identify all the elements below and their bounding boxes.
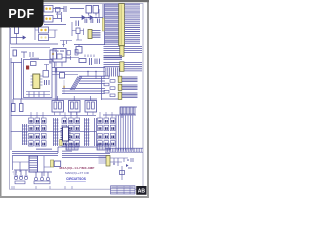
wire to bus	[89, 4, 103, 18]
relay K2 box	[93, 6, 99, 14]
psu small box	[31, 62, 37, 66]
drawing frame	[10, 4, 144, 190]
left rail wires	[11, 58, 22, 150]
wire y44.5 right	[74, 45, 105, 47]
capacitor C5 ticks	[64, 6, 66, 12]
driver cluster C2	[98, 134, 103, 139]
psu enclosure box	[24, 60, 53, 98]
transistor group Q1	[14, 170, 28, 176]
driver cluster A	[29, 118, 34, 123]
junction dots top-mid	[88, 17, 89, 18]
vertical pair x55	[55, 68, 57, 100]
vertical bus right	[116, 116, 133, 151]
driver cluster B	[62, 118, 67, 123]
wire y57.5 mid	[62, 57, 79, 59]
arrow wire	[11, 36, 26, 39]
U6 left text	[49, 61, 53, 64]
wires top-left cluster	[44, 9, 66, 25]
dense block left	[104, 56, 123, 59]
bottom-right wires	[110, 158, 128, 180]
connector J6	[118, 92, 122, 99]
connector J2	[120, 46, 124, 57]
fan yellow mark	[63, 86, 65, 89]
bus right of connector J1	[125, 4, 141, 43]
bus left lighter overlay	[105, 5, 119, 41]
opto U3 box	[39, 27, 49, 33]
coil symbols left	[12, 104, 16, 112]
bus horizontal lower	[62, 89, 105, 94]
resistor R20	[79, 59, 86, 63]
opto U2 box	[44, 16, 53, 23]
small box x60 y73	[60, 73, 65, 79]
regulator block	[76, 28, 80, 34]
connector J3	[120, 62, 124, 72]
connector J5	[118, 84, 122, 90]
comb P4 strip	[105, 148, 143, 152]
bus left yellow mark	[102, 18, 104, 31]
relay K5 yellow	[106, 156, 110, 167]
comb P3	[97, 144, 110, 150]
transistor group Q2	[33, 172, 52, 177]
svg-text:CIRCUITSOS: CIRCUITSOS	[66, 177, 86, 181]
ic U9 box	[76, 47, 82, 54]
title block table	[111, 186, 136, 194]
ground sym left	[13, 172, 18, 176]
connector J1	[119, 4, 125, 46]
wire y67.5	[52, 67, 105, 69]
connector J1 pins	[119, 5, 121, 45]
svg-text:PDF: PDF	[8, 7, 34, 21]
matrix rails	[11, 116, 97, 132]
feeder wire y99	[13, 99, 97, 104]
bus junction dots	[87, 71, 88, 72]
wire top-mid entry	[70, 9, 84, 18]
bus left of connector J1	[105, 4, 119, 44]
connector J7 yellow	[88, 30, 92, 39]
wire y62	[11, 62, 23, 64]
relay feeds	[58, 96, 91, 101]
bottom-right small marks	[128, 158, 133, 168]
capacitor C7	[76, 21, 79, 27]
psu caps right	[45, 80, 50, 85]
wire drop	[11, 28, 17, 44]
U5 pin ticks	[31, 76, 33, 85]
matrix top wires	[31, 112, 112, 118]
pin header P1	[120, 107, 135, 114]
opto U3 LEDs	[40, 29, 42, 31]
diode D1	[78, 16, 103, 20]
ladder boxes left of J4-J6	[104, 76, 109, 79]
label text top-left	[56, 14, 62, 15]
comb ladder mid2	[85, 118, 89, 146]
opto U4 LEDs	[40, 36, 42, 38]
opto U2 LEDs	[45, 18, 47, 20]
svg-text:MXA(X)L-14-7/MX-4MP: MXA(X)L-14-7/MX-4MP	[60, 166, 95, 170]
opto U4 box	[39, 35, 49, 41]
U6 bottom pins	[56, 56, 71, 67]
bottom-right components	[120, 171, 125, 175]
ladder rail	[102, 76, 119, 100]
long wire y44	[11, 43, 59, 45]
relay RL2	[69, 101, 81, 113]
wires y72-76	[52, 68, 78, 75]
psu components right	[43, 71, 49, 78]
comb ladder right	[95, 118, 97, 146]
comb ladder left	[23, 124, 27, 145]
inductor L7	[56, 8, 61, 13]
small rect row	[67, 51, 71, 56]
bus right lighter overlay	[125, 6, 141, 41]
ic U6 box	[53, 49, 66, 63]
logo box	[137, 186, 147, 194]
relay RL3	[85, 101, 97, 113]
capacitors under diode row	[85, 19, 99, 24]
vertical comb mid-right	[104, 68, 119, 77]
frame bottom lead ticks	[12, 186, 72, 189]
red mark VR1	[26, 66, 29, 70]
P1 top wire	[120, 107, 137, 118]
psu bottom ladder	[26, 92, 50, 98]
psu top text	[30, 58, 39, 59]
page background	[0, 0, 149, 198]
comb ladder mid1	[54, 118, 58, 146]
relay K4 yellow	[51, 160, 54, 167]
comb P2	[66, 144, 78, 150]
page border	[1, 1, 149, 198]
bottom bus label	[36, 149, 52, 150]
IC U5 regulator	[33, 74, 40, 89]
relay K1 box	[86, 6, 92, 14]
bottom bus lines	[12, 152, 58, 156]
J5 wires	[122, 85, 138, 90]
J4 wires	[122, 77, 138, 82]
driver cluster B2	[62, 134, 67, 139]
opto U1 box	[44, 6, 53, 13]
opto wires	[35, 24, 58, 40]
bottom-left wires	[13, 156, 51, 176]
cap ticks row	[90, 58, 100, 65]
bus fan diagonal	[70, 77, 78, 91]
svg-text:MAIN(X)L+XT CIR: MAIN(X)L+XT CIR	[65, 171, 89, 175]
driver cluster A2	[29, 134, 34, 139]
comb link wire	[58, 147, 97, 153]
resistor R10	[13, 50, 17, 56]
component T-drop above U6	[60, 41, 72, 48]
relay RL1	[52, 101, 64, 113]
fuse F1	[15, 27, 19, 34]
bus row A	[104, 47, 143, 53]
dip ic U8	[29, 156, 38, 172]
bus left rail	[104, 4, 106, 45]
page border top dark	[0, 0, 149, 2]
bus row B	[104, 63, 143, 67]
yellow mark matrix	[60, 140, 63, 146]
svg-text:AB: AB	[138, 189, 146, 195]
long wire y47.5	[11, 47, 51, 49]
bus label mid-bottom	[62, 151, 72, 152]
J6 wires	[122, 93, 138, 98]
driver cluster C	[98, 118, 103, 123]
connector J4	[118, 76, 122, 82]
dip ic U7	[63, 127, 69, 141]
relay K3	[50, 50, 57, 59]
pdf badge	[0, 0, 44, 28]
bus horizontal right	[79, 76, 105, 83]
vertical bus top wire	[103, 114, 136, 116]
U6 labels	[55, 50, 59, 52]
component marks y52	[21, 52, 33, 58]
opto U1 LEDs	[45, 8, 47, 10]
